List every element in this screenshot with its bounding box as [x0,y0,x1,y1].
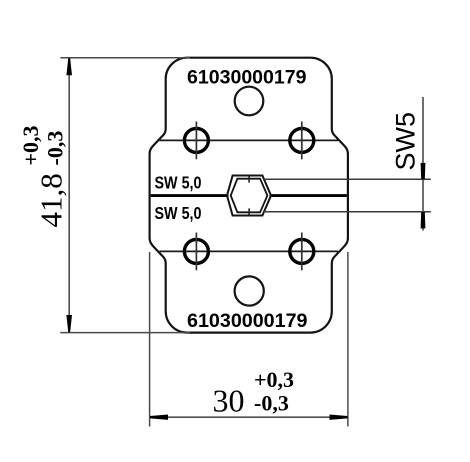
dim 30 extension line right [347,252,349,427]
dim SW5 arrow lower [421,212,426,229]
screw hole bottom-right [290,233,314,271]
dim SW5 hex flat line upper [264,178,431,180]
top hole circle [235,87,264,116]
parting center line right [270,194,347,197]
hex cavity outer [227,176,271,216]
dim 41.8 arrow up [66,58,72,75]
svg-text:41,8: 41,8 [34,173,69,227]
svg-text:61030000179: 61030000179 [187,67,307,89]
svg-text:30: 30 [213,383,245,419]
dim SW5 text [391,112,421,171]
svg-text:-0,3: -0,3 [254,391,289,416]
dim 41.8 dimension line [68,58,70,333]
dim SW5 dimension line [422,97,424,231]
dim 41.8 arrow down [66,315,72,332]
hex cavity inner [231,179,268,213]
svg-text:SW 5,0: SW 5,0 [155,203,202,223]
svg-text:SW5: SW5 [391,112,421,171]
screw hole top-right [290,122,314,160]
dim 30 dimension line [150,416,348,418]
svg-text:SW 5,0: SW 5,0 [155,172,202,192]
svg-text:+0,3: +0,3 [254,367,294,392]
dim 30 arrow right [330,415,348,420]
screw hole bottom-left [184,233,208,271]
die body outline [150,58,348,333]
dim 30 extension line left [149,252,151,427]
upper step edge line [160,139,339,141]
lower step edge line [160,250,339,252]
dim 41.8 extension line top [60,57,190,59]
dim SW5 arrow upper [421,163,426,180]
svg-text:61030000179: 61030000179 [187,310,308,332]
dim 41.8 text [18,125,69,227]
bottom hole circle [235,276,264,305]
dim SW5 hex flat line lower [264,211,431,213]
svg-text:-0,3: -0,3 [43,131,68,166]
hex center mark ticks [248,176,250,214]
dim 30 arrow left [150,415,168,420]
dim 41.8 extension line bottom [60,332,190,334]
svg-text:+0,3: +0,3 [18,125,43,165]
parting center line left [151,194,229,197]
screw hole top-left [184,122,208,160]
